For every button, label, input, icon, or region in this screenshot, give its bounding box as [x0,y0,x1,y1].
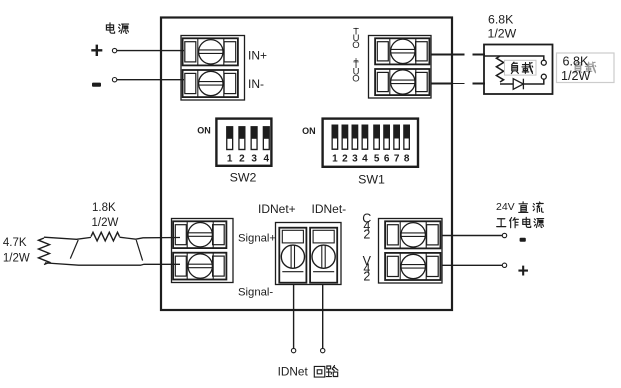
svg-text:O: O [352,40,359,51]
load terminal circle (top) [541,60,546,65]
svg-text:5: 5 [374,153,380,164]
vertical label OUT+ (stacked) [352,55,359,84]
wire 24C out [442,235,502,237]
svg-text:+: + [90,38,103,63]
label IDNet 回路 (loop) [278,365,338,379]
terminal block TB5 (24V power) [379,219,443,284]
terminal point circle IDNet- [321,348,325,352]
resistor value label 6.8K 1/2W (top) [488,12,517,40]
svg-text:IDNet+: IDNet+ [258,202,296,216]
side label box 6.8K 1/2W 负载 [557,53,615,83]
svg-text:ON: ON [197,126,211,136]
terminal point circle (24V +) [502,263,506,267]
DIP switch SW2 [216,119,271,185]
minus label (24V supply) [520,238,526,242]
svg-text:2: 2 [239,153,245,164]
svg-text:IN+: IN+ [248,49,267,63]
wire 24V out [442,264,502,266]
load box outline [484,45,553,95]
svg-text:4: 4 [264,153,270,164]
vertical label 24V (stacked V 4 2) [363,254,372,284]
wire power + to IN+ [117,50,184,52]
twist mark 1 [70,240,78,259]
wire upper (twisted pair) with resistor 1.8K [44,237,91,239]
svg-text:2: 2 [363,269,370,283]
svg-text:ON: ON [302,126,316,136]
twist mark 2 [136,240,142,261]
DIP switch SW1 [323,119,418,187]
svg-text:4.7K: 4.7K [3,237,27,249]
svg-text:1: 1 [227,153,233,164]
module outline (interface module body) [161,18,452,311]
svg-text:1/2W: 1/2W [3,252,30,264]
minus terminal label (power input -) [92,83,101,87]
svg-text:SW1: SW1 [358,173,385,187]
resistor 4.7K (vertical zigzag) [39,238,50,265]
load resistor zigzag [496,56,503,82]
wire power - to IN- [117,79,184,81]
value label 4.7K 1/2W [3,237,30,264]
svg-text:3: 3 [251,153,257,164]
svg-text:2: 2 [363,227,370,241]
wire OUT- to load (dashed) [431,54,465,56]
value label 1.8K 1/2W [92,202,119,229]
terminal block TB2 (OUT-/OUT+) [369,36,432,99]
terminal block TB4 (IDNet+/IDNet-) [276,223,342,285]
load internal wire (top) [485,56,544,60]
svg-text:Signal-: Signal- [238,287,273,299]
svg-text:2: 2 [342,153,348,164]
svg-text:IDNet-: IDNet- [312,202,347,216]
wire lower (twisted pair) [45,263,180,265]
terminal point circle (24V -) [502,233,506,237]
wire IDNet+ down [293,285,295,349]
svg-text:Signal+: Signal+ [238,233,276,245]
terminal block TB3 (Signal+/Signal-) [172,219,234,283]
terminal block TB1 (IN+/IN-) [181,36,245,101]
svg-text:7: 7 [394,153,400,164]
svg-text:3: 3 [352,153,358,164]
label 负载 (load) inside box [505,60,537,75]
terminal point circle + [112,48,116,52]
svg-text:1/2W: 1/2W [561,69,591,83]
svg-text:8: 8 [404,153,410,164]
label 工作电源 (working power) [497,217,544,227]
terminal point circle IDNet+ [291,348,295,352]
load internal wire (bottom) + diode D1 [500,83,513,85]
svg-text:6.8K: 6.8K [563,55,590,69]
svg-text:1/2W: 1/2W [488,26,517,40]
svg-text:6: 6 [384,153,390,164]
svg-text:1: 1 [332,153,338,164]
svg-text:1/2W: 1/2W [92,217,119,229]
svg-text:1.8K: 1.8K [92,202,116,214]
svg-text:24V: 24V [496,201,515,213]
svg-text:O: O [352,74,359,85]
svg-text:IDNet: IDNet [278,365,309,379]
svg-text:4: 4 [362,153,368,164]
svg-text:+: + [518,261,529,282]
svg-text:IN-: IN- [248,77,264,91]
svg-text:6.8K: 6.8K [488,12,514,26]
terminal point circle - [112,78,116,82]
label 24V 直流 (24V DC) [496,201,543,213]
svg-text:SW2: SW2 [230,171,257,185]
load terminal circle (bottom) [541,74,546,79]
label 电源 (power) [106,23,128,34]
wire OUT+ to load (dashed) [431,83,452,85]
vertical label 24C (stacked C 4 2) [362,211,371,241]
wire IDNet- down [322,285,324,349]
vertical label OUT- (stacked) [352,23,359,51]
